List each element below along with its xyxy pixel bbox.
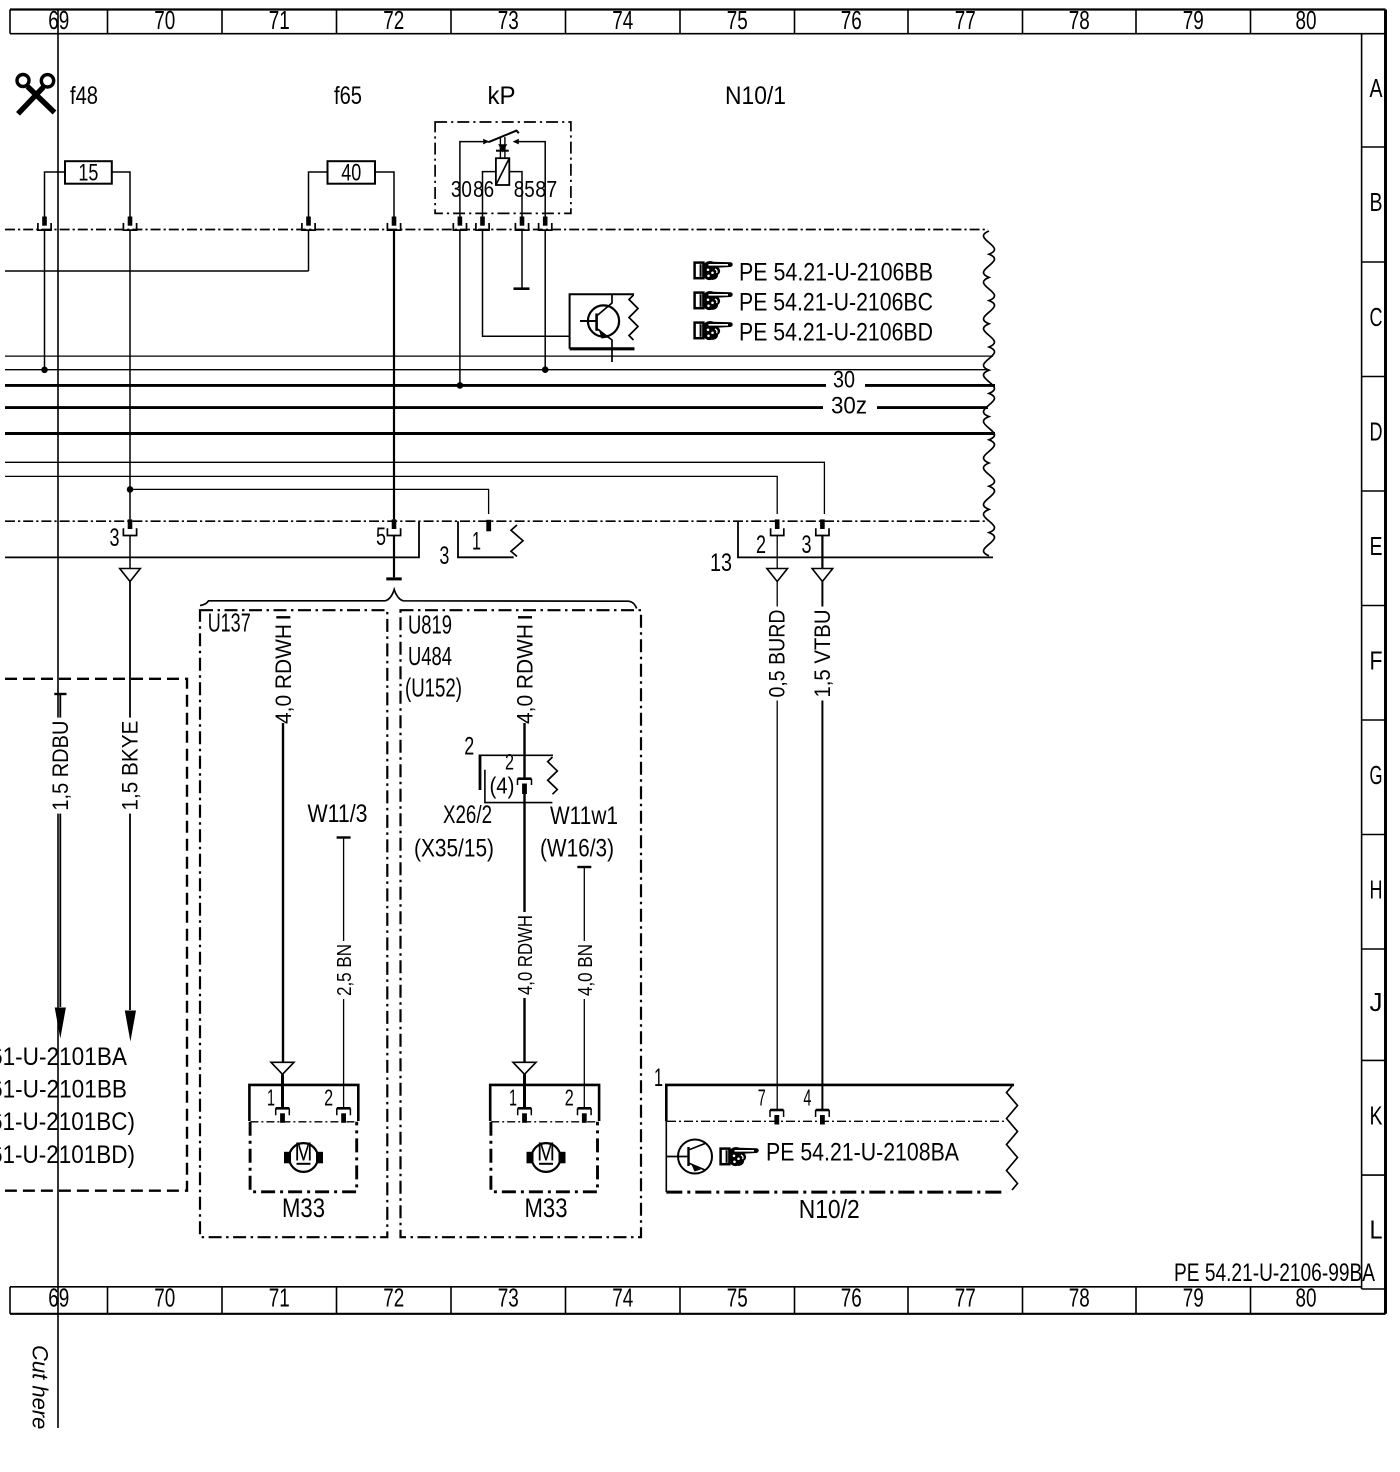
wire f48 left lead (45, 172, 66, 217)
module N10/1 bottom edge right segment with bracket 13 (738, 521, 993, 557)
wire kP pin30 (460, 142, 489, 217)
terminal 3 (BKYE) (128, 519, 133, 529)
wire f48 right down (BKYE upper) (129, 231, 131, 520)
svg-text:13: 13 (710, 549, 732, 577)
svg-text:76: 76 (841, 5, 862, 35)
ground wire 2,5 BN (343, 838, 345, 1110)
wire bus 2 (5, 369, 989, 371)
svg-text:74: 74 (612, 1283, 633, 1313)
wire 4,0 RDWH lower (to motor) (523, 794, 525, 1063)
motor M33 pin1 terminal (276, 1107, 290, 1110)
svg-text:X26/2: X26/2 (443, 801, 492, 829)
svg-text:PE 54.21-U-2108BA: PE 54.21-U-2108BA (766, 1139, 959, 1167)
wire below terminal 5 (393, 536, 395, 577)
svg-text:75: 75 (727, 5, 748, 35)
svg-text:86: 86 (473, 176, 494, 202)
wire f65 stub to left edge (5, 270, 309, 272)
svg-text:30: 30 (833, 367, 855, 394)
svg-text:61-U-2101BD): 61-U-2101BD) (0, 1141, 135, 1169)
relay kP actuator (499, 137, 501, 158)
svg-text:M: M (295, 1137, 313, 1167)
ground wire W11/3 tick (337, 836, 351, 838)
svg-text:(X35/15): (X35/15) (414, 835, 494, 863)
svg-text:J: J (1370, 987, 1383, 1017)
ground bar kP85 (514, 287, 530, 290)
wire f65 left down to edge stub (308, 231, 310, 272)
transistor T1 base bar (595, 314, 598, 331)
fuse f48 element 15 (65, 161, 112, 184)
wire feed to terminal 1 (130, 489, 489, 514)
svg-text:85: 85 (514, 176, 535, 202)
svg-text:61-U-2101BA: 61-U-2101BA (0, 1043, 127, 1071)
terminal 5 (pump feed) (392, 519, 397, 529)
svg-text:U819: U819 (408, 610, 452, 640)
page frame: top ruler band (10, 8, 1386, 10)
ground wire W11w1 tick (577, 866, 591, 868)
svg-text:2: 2 (756, 531, 766, 559)
motor M33 pin2 terminal (578, 1107, 592, 1110)
transistor T1 collector (597, 295, 612, 317)
wire kP pin86 (483, 172, 496, 217)
control unit N10/2 box (666, 1085, 1014, 1121)
svg-text:70: 70 (154, 1283, 175, 1313)
terminal kP 85 (520, 217, 525, 226)
wire below terminal 3 (129, 536, 131, 569)
svg-text:4,0 RDWH: 4,0 RDWH (513, 624, 538, 724)
motor M33 connector row (250, 1121, 357, 1123)
wire kP87 to bus 2 (544, 231, 546, 370)
ground bar below terminal 5 (386, 577, 401, 580)
junction dot f48-bus2 (41, 367, 48, 374)
svg-text:73: 73 (498, 1283, 519, 1313)
module N10/1 torn right edge (984, 231, 995, 556)
wire 4,0 RDWH (U137) tick (276, 616, 290, 618)
junction dot kP87-bus2 (542, 366, 549, 373)
wire 0,5 BURD (776, 582, 778, 1111)
wire kP86 to driver box (483, 231, 570, 337)
option box U137 (dash-dot) (200, 610, 387, 1237)
terminal f48 left (42, 217, 47, 226)
wire f65 right down to terminal 5 (393, 231, 395, 520)
motor M33 pin1 terminal (518, 1107, 532, 1110)
transistor T1 base lead (580, 320, 597, 322)
connector X26/2 pin2 bracket (479, 756, 482, 790)
triangle at motor pin1 (left) (271, 1062, 294, 1074)
triangle connector BURD (767, 569, 788, 582)
transistor T2 base bar (687, 1147, 689, 1166)
svg-text:40: 40 (341, 160, 361, 187)
junction dot to terminal-1 feed (127, 486, 134, 493)
svg-text:PE 54.21-U-2106-99BA: PE 54.21-U-2106-99BA (1174, 1259, 1375, 1287)
svg-text:72: 72 (383, 1283, 404, 1313)
svg-text:G: G (1370, 760, 1383, 790)
svg-text:80: 80 (1296, 5, 1317, 35)
terminal f65 right (392, 217, 397, 226)
svg-text:E: E (1370, 531, 1383, 561)
svg-text:1,5 RDBU: 1,5 RDBU (48, 721, 73, 811)
svg-text:79: 79 (1183, 1283, 1204, 1313)
svg-text:U484: U484 (408, 641, 452, 671)
terminal N10/2 pin4 (816, 1109, 830, 1112)
relay kP box (dash-dot) (435, 122, 571, 213)
svg-text:70: 70 (154, 5, 175, 35)
svg-text:kP: kP (488, 82, 516, 110)
svg-text:PE 54.21-U-2106BB: PE 54.21-U-2106BB (739, 259, 933, 287)
wire 1,5 BKYE lower (129, 582, 131, 1011)
svg-text:(U152): (U152) (405, 673, 462, 703)
svg-text:1: 1 (509, 1084, 517, 1110)
svg-text:78: 78 (1069, 1283, 1090, 1313)
terminal 1 pin (486, 520, 491, 532)
reference hand icon BB (695, 263, 704, 279)
svg-text:77: 77 (955, 1283, 976, 1313)
wire kP30 to bus 30 (459, 231, 461, 386)
reference hand icon 2108BA (721, 1149, 730, 1165)
triangle at motor pin1 (right) (513, 1062, 536, 1074)
terminal kP 30 (458, 217, 463, 226)
scissors icon (17, 75, 29, 87)
svg-text:76: 76 (841, 1283, 862, 1313)
svg-text:PE 54.21-U-2106BC: PE 54.21-U-2106BC (739, 289, 933, 317)
svg-text:61-U-2101BB: 61-U-2101BB (0, 1075, 127, 1103)
option box U819 U484 (dash-dot) (401, 610, 642, 1237)
svg-text:75: 75 (727, 1283, 748, 1313)
torn mark at connector 1 (511, 525, 523, 557)
svg-text:U137: U137 (208, 608, 251, 638)
svg-text:5: 5 (376, 523, 386, 551)
svg-text:3: 3 (439, 542, 449, 570)
motor M33 symbol (532, 1143, 561, 1172)
ground wire 4,0 BN (583, 867, 585, 1109)
wire feed to terminal 2 (BURD) (5, 476, 777, 514)
svg-text:K: K (1370, 1100, 1383, 1130)
svg-text:2: 2 (505, 750, 514, 775)
wire 4,0 RDWH (U819) tick (518, 616, 532, 618)
svg-text:1: 1 (472, 528, 481, 556)
terminal kP 86 (480, 217, 485, 226)
svg-text:C: C (1370, 302, 1383, 332)
terminal kP 87 (543, 217, 548, 226)
svg-text:2: 2 (324, 1084, 333, 1110)
wire terminal3-triangle VTBU (821, 536, 823, 569)
triangle connector VTBU (812, 569, 833, 582)
svg-text:f65: f65 (334, 82, 362, 110)
svg-text:30z: 30z (831, 393, 867, 420)
svg-text:1: 1 (267, 1084, 275, 1110)
inline connector tick RDBU (54, 693, 66, 695)
wire bus 1 (5, 355, 993, 357)
svg-text:4,0 BN: 4,0 BN (575, 944, 597, 996)
wire kP pin87 (517, 142, 545, 217)
transistor T1 emitter with arrow (597, 329, 612, 363)
svg-text:7: 7 (758, 1085, 766, 1111)
wire terminal2-triangle BURD (776, 536, 778, 569)
terminal f65 left (306, 217, 311, 226)
svg-text:PE 54.21-U-2106BD: PE 54.21-U-2106BD (739, 319, 933, 347)
motor M33 connector housing (249, 1085, 358, 1121)
svg-text:77: 77 (955, 5, 976, 35)
svg-text:(W16/3): (W16/3) (540, 835, 614, 863)
transistor T2 emitter with arrow (689, 1163, 706, 1170)
svg-text:71: 71 (269, 1283, 290, 1313)
svg-text:2: 2 (464, 732, 474, 760)
motor M33 body box (dash-dot) (491, 1122, 598, 1192)
terminal 2 (BURD) (775, 519, 780, 529)
reference hand icon BD (695, 323, 704, 339)
reference hand icon BC (695, 293, 704, 309)
relay kP coil (496, 158, 509, 185)
terminal f48 right (128, 217, 133, 226)
cut line (57, 10, 59, 1429)
transistor T2 circle (678, 1140, 712, 1174)
svg-text:W11w1: W11w1 (550, 802, 618, 830)
svg-text:15: 15 (78, 160, 98, 187)
arrow BKYE (125, 1011, 136, 1042)
svg-text:4: 4 (803, 1085, 811, 1111)
module N10/1 bottom edge left segment with bracket (5, 521, 419, 557)
relay kP switch contact right (513, 139, 519, 145)
svg-text:2: 2 (565, 1084, 574, 1110)
svg-text:80: 80 (1296, 1283, 1317, 1313)
motor M33 pin2 terminal (337, 1107, 351, 1110)
wire bus 30z (5, 406, 988, 409)
svg-text:73: 73 (498, 5, 519, 35)
svg-text:0,5 BURD: 0,5 BURD (765, 610, 790, 698)
motor M33 connector housing (490, 1085, 599, 1121)
bus label 30z (823, 401, 877, 414)
svg-text:B: B (1370, 187, 1383, 217)
svg-text:3: 3 (802, 531, 812, 559)
connector X26/2 box (479, 754, 553, 756)
svg-text:A: A (1370, 73, 1383, 103)
junction dot kP30-bus30 (457, 382, 464, 389)
svg-text:79: 79 (1183, 5, 1204, 35)
svg-text:4,0 RDWH: 4,0 RDWH (271, 624, 296, 724)
svg-text:30: 30 (451, 176, 472, 202)
svg-text:1,5 BKYE: 1,5 BKYE (118, 721, 143, 811)
motor M33 connector row (491, 1121, 598, 1123)
svg-text:Cut here: Cut here (28, 1345, 53, 1429)
wire kP pin85 (509, 172, 522, 217)
arrow RDBU (55, 1008, 66, 1039)
svg-text:F: F (1370, 645, 1383, 675)
wire bus 5 (5, 432, 995, 435)
motor M33 body box (dash-dot) (250, 1122, 357, 1192)
bus label 30 (826, 378, 865, 391)
connector X26/2 terminal (518, 777, 532, 780)
driver stage box (torn) (570, 294, 634, 349)
svg-text:f48: f48 (70, 82, 98, 110)
svg-text:61-U-2101BC): 61-U-2101BC) (0, 1108, 135, 1136)
wire 4,0 RDWH upper (U819) (523, 723, 525, 778)
svg-text:74: 74 (612, 5, 633, 35)
module N10/1 top connector row (dash-dot) (5, 229, 988, 231)
module N10/1 bottom edge middle segment with bracket (458, 521, 514, 557)
svg-text:1: 1 (654, 1064, 663, 1092)
wire f48 right lead (112, 172, 130, 217)
svg-text:W11/3: W11/3 (308, 800, 368, 828)
fuse f65 element 40 (328, 161, 376, 184)
connector box (dashed) (5, 679, 187, 1191)
svg-text:87: 87 (535, 176, 557, 202)
svg-text:M: M (537, 1137, 555, 1167)
svg-text:(4): (4) (490, 773, 515, 799)
svg-text:71: 71 (269, 5, 290, 35)
transistor T1 circle (588, 305, 619, 336)
relay kP switch contact left (483, 139, 489, 145)
svg-text:N10/2: N10/2 (799, 1194, 860, 1224)
svg-text:N10/1: N10/1 (725, 82, 786, 110)
svg-text:M33: M33 (282, 1193, 325, 1223)
svg-text:L: L (1370, 1215, 1383, 1245)
wire bus 30 (5, 384, 995, 387)
wire f48 left to bus (44, 231, 46, 370)
wire 4,0 RDWH (U137) (282, 723, 284, 1063)
page frame: bottom ruler band (10, 1286, 1362, 1288)
svg-text:D: D (1370, 416, 1383, 446)
svg-text:3: 3 (110, 524, 120, 552)
triangle connector BKYE (120, 569, 141, 582)
wire kP85 to ground (521, 231, 523, 288)
svg-text:4,0 RDWH: 4,0 RDWH (515, 915, 537, 995)
wire f65 right lead (375, 172, 394, 217)
svg-text:1,5 VTBU: 1,5 VTBU (810, 610, 835, 698)
svg-text:78: 78 (1069, 5, 1090, 35)
svg-text:2,5 BN: 2,5 BN (334, 944, 356, 996)
svg-text:M33: M33 (525, 1193, 568, 1223)
relay kP switch blade (488, 131, 518, 143)
motor M33 symbol (289, 1143, 318, 1172)
terminal N10/2 pin7 (770, 1109, 784, 1112)
wire 1,5 RDBU (59, 694, 61, 1007)
module N10/1 lower connector row (dash-dot) (5, 520, 988, 522)
svg-text:H: H (1370, 874, 1383, 904)
wire feed to terminal 3 (VTBU) (5, 462, 824, 514)
svg-text:72: 72 (383, 5, 404, 35)
terminal 3 (VTBU) (820, 519, 825, 529)
transistor T2 collector (689, 1144, 706, 1151)
variant brace (200, 590, 637, 609)
wire f65 left lead (309, 172, 328, 217)
wire 1,5 VTBU (821, 582, 823, 1111)
transistor T2 base lead (666, 1156, 688, 1158)
page frame: right letter column (1384, 10, 1387, 1314)
